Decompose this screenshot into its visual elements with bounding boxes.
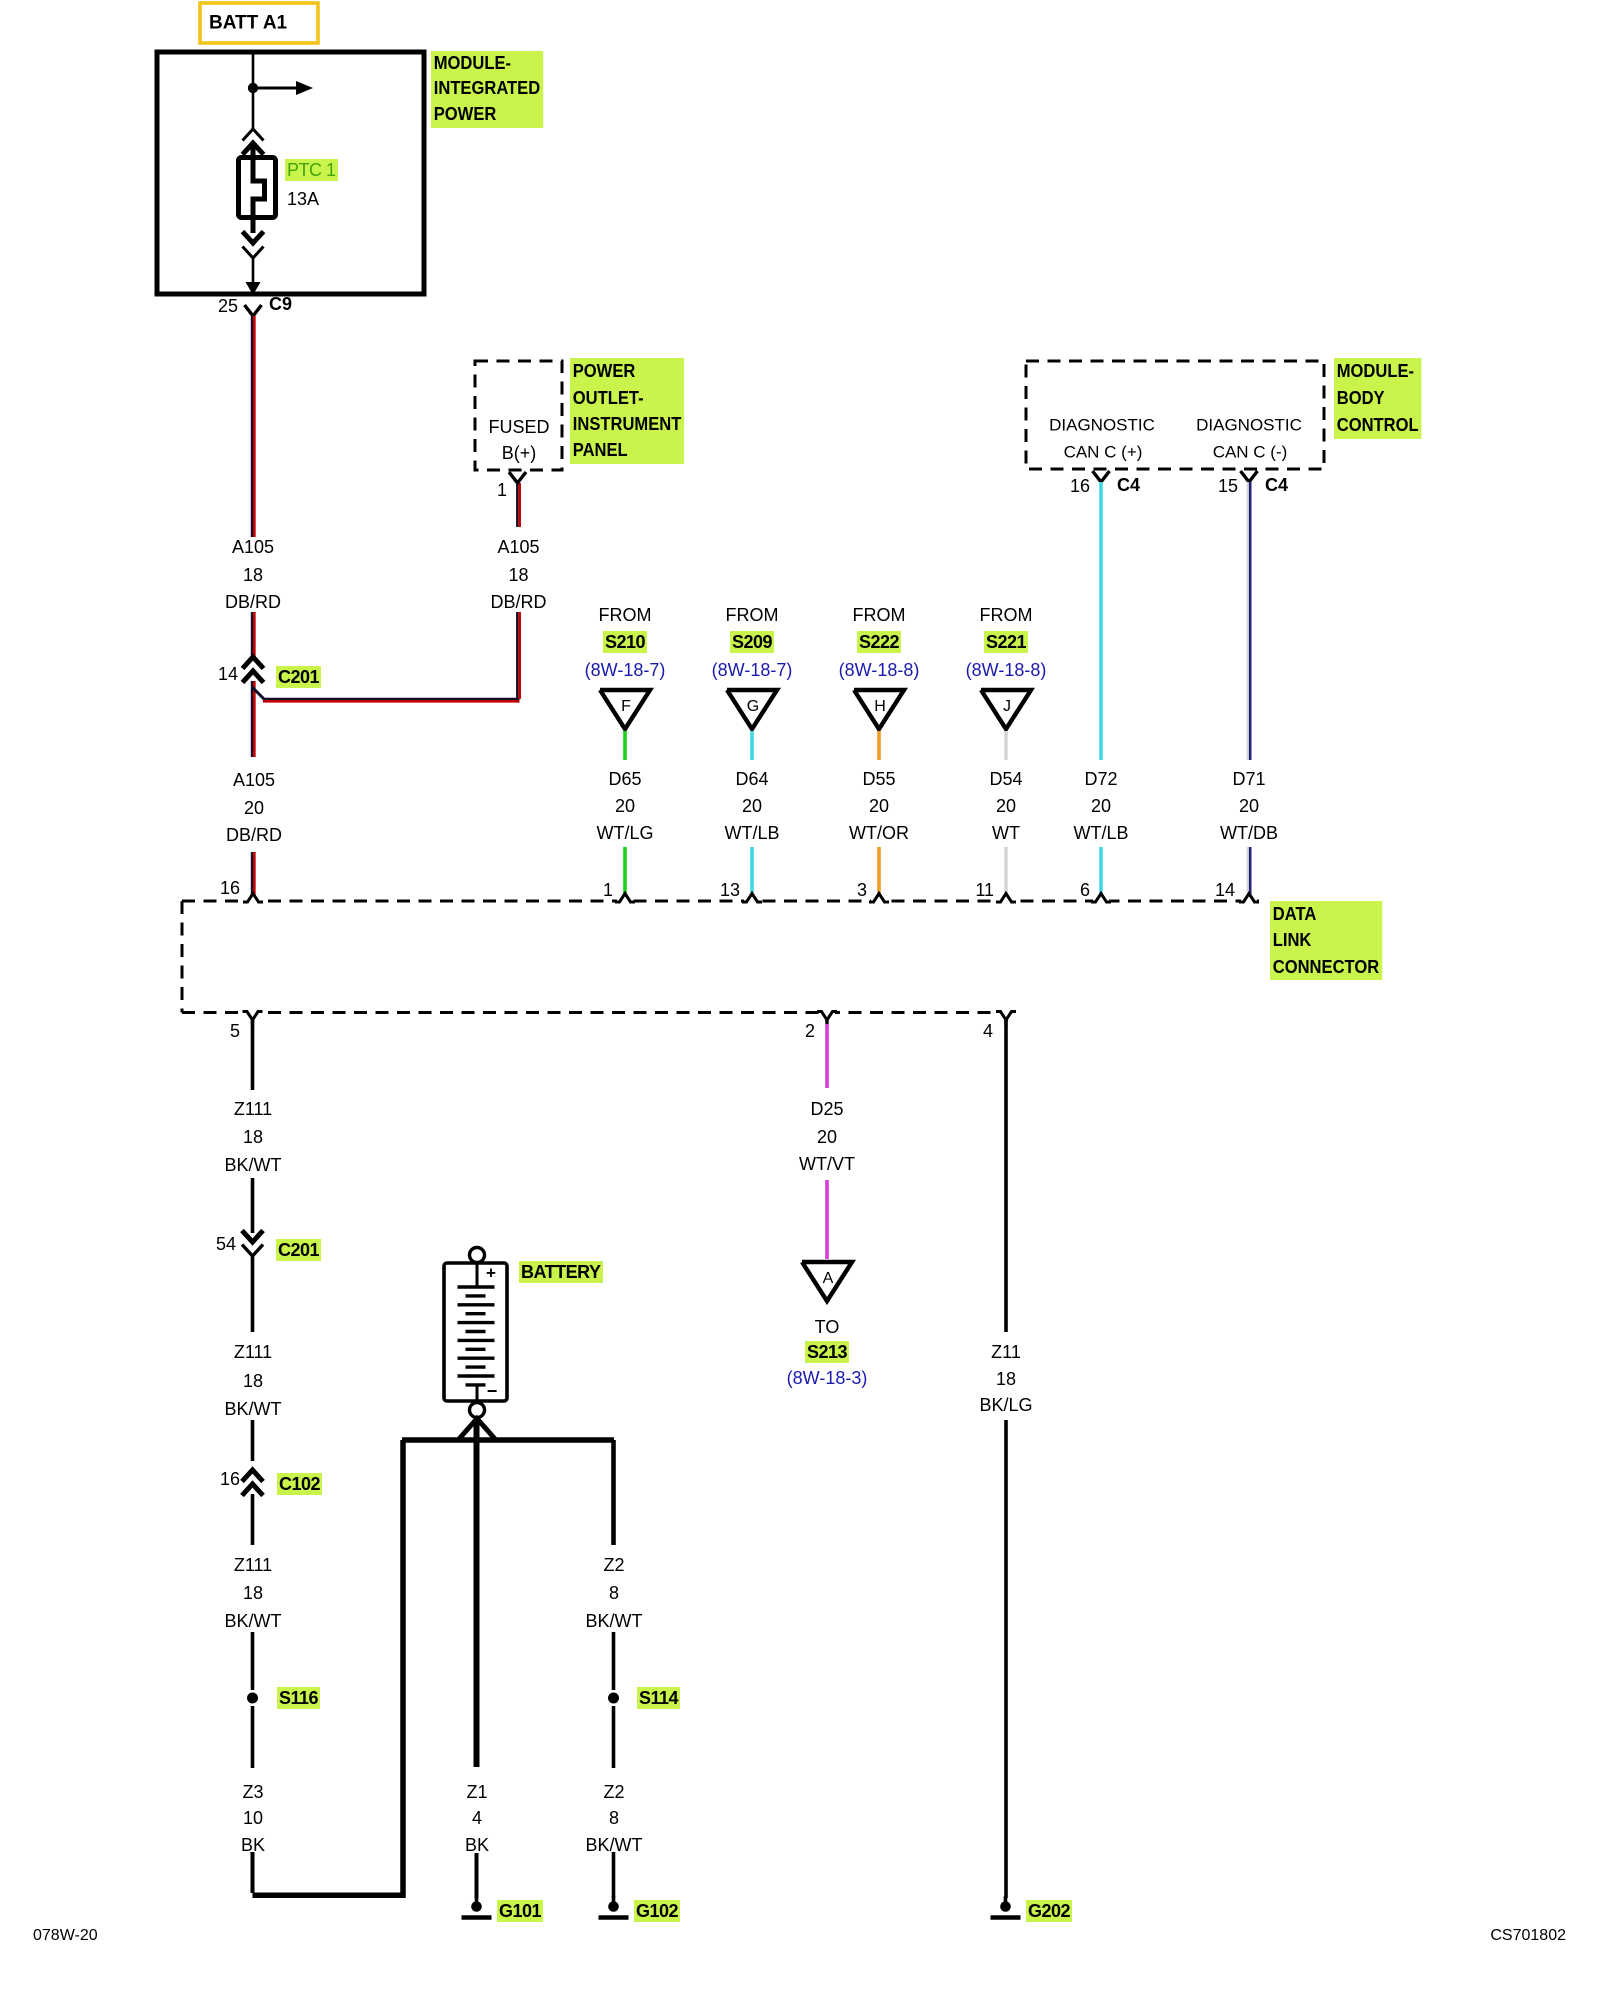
- DLC pin 2: [819, 1011, 835, 1015]
- label DLC pin 3: [857, 881, 867, 899]
- labels DLC pins 6 14: [1080, 881, 1090, 899]
- labels DIAGNOSTIC CAN C: [1049, 417, 1155, 434]
- labels wire Z11 18 BK/LG: [991, 1343, 1021, 1361]
- labels wire D72 20 WT/LB: [1084, 770, 1117, 788]
- ground G101: [475, 1896, 479, 1904]
- node junction dot: [248, 83, 258, 93]
- labels wire D71 20 WT/DB: [1232, 770, 1265, 788]
- label 13A: [287, 190, 319, 208]
- DLC pin 3: [871, 899, 887, 903]
- labels wire A105 18 DB/RD left: [232, 538, 274, 556]
- off-page connector A to S213: [802, 1262, 852, 1301]
- labels wire A105 18 DB/RD right: [497, 538, 539, 556]
- label PTC 1: [285, 161, 338, 179]
- wire into fuse: [251, 145, 256, 160]
- connector power outlet pin 1: [509, 472, 526, 483]
- label pin 1: [497, 481, 507, 499]
- label splice S114: [637, 1689, 680, 1707]
- wire Z111 18 BK/WT middle: [251, 1256, 255, 1332]
- labels wire D25 20 WT/VT: [810, 1100, 843, 1118]
- wire D25 20 WT/VT: [825, 1024, 829, 1088]
- label TO S213: [815, 1318, 840, 1336]
- DLC pin 5: [245, 1011, 261, 1015]
- labels wire Z111 upper: [234, 1100, 272, 1118]
- labels wire Z111 middle: [234, 1343, 272, 1361]
- battery polarity marks: [486, 1265, 496, 1282]
- connector C201 pin 14: [243, 657, 264, 669]
- splice S114: [608, 1693, 619, 1704]
- label BATTERY: [519, 1263, 603, 1281]
- wire below fuse: [251, 216, 256, 233]
- DLC pin 13: [744, 899, 760, 903]
- label pin 16 DLC: [220, 879, 240, 897]
- off-page connector H from S222: [854, 690, 904, 729]
- connector chevrons below PTC: [243, 232, 264, 244]
- wire D-circuit below triangle F: [623, 731, 627, 760]
- arrowhead at module edge: [246, 282, 261, 295]
- wire to module pin 25: [252, 258, 255, 283]
- wire Z2 8 BK/WT upper: [611, 1440, 616, 1545]
- wire D72 20 WT/LB: [1099, 482, 1103, 760]
- labels wire A105 20 DB/RD: [233, 771, 275, 789]
- label MODULE-BODY CONTROL: [1334, 358, 1421, 440]
- DLC pin 16: [245, 899, 261, 903]
- DLC pin 6: [1093, 899, 1109, 903]
- fuse label box BATT A1: [200, 3, 318, 43]
- wire Z3 10 BK: [251, 1706, 255, 1768]
- module BODY CONTROL dashed box: [1026, 361, 1324, 469]
- wire D-circuit below triangle H: [877, 731, 881, 760]
- label pin 25: [218, 297, 238, 315]
- labels FROM S209 column: [726, 606, 779, 624]
- off-page connector G from S209: [727, 690, 777, 729]
- labels wire Z2 upper: [603, 1556, 624, 1574]
- label DLC pin 1: [603, 881, 613, 899]
- label DLC pin 13: [720, 881, 740, 899]
- arrow internal feed: [253, 87, 297, 90]
- battery B1: [470, 1248, 485, 1263]
- wire Z111 18 BK/WT lower: [251, 1494, 255, 1545]
- label splice S116: [277, 1689, 320, 1707]
- wire A105 18 DB/RD right riser: [516, 612, 518, 699]
- wire Z2 8 BK/WT lower: [612, 1706, 616, 1768]
- labels DLC bottom pins 5 2 4: [230, 1022, 240, 1040]
- wire battery negative junction: [459, 1419, 495, 1440]
- wire A105 20 DB/RD below C201: [251, 681, 253, 757]
- fuse PTC 1 13A symbol: [239, 158, 276, 218]
- label C9: [269, 295, 292, 313]
- label MODULE-INTEGRATED POWER: [431, 51, 543, 128]
- wire A105 18 DB/RD left: [251, 316, 253, 537]
- label pin 54 C201: [216, 1235, 236, 1253]
- connector C102 pin 16: [242, 1470, 263, 1482]
- label POWER OUTLET-INSTRUMENT PANEL: [570, 358, 684, 463]
- wire D-circuit below triangle G: [750, 731, 754, 760]
- label pin 14: [218, 665, 238, 683]
- wire Z111 18 BK/WT upper: [251, 1020, 255, 1090]
- label pin 16 C102: [220, 1470, 240, 1488]
- wire branch C201 to power outlet: [252, 687, 265, 700]
- module POWER OUTLET-INSTRUMENT PANEL dashed box: [475, 361, 562, 470]
- wire Z1 4 BK: [474, 1418, 480, 1767]
- wire Z11 18 BK/LG: [1004, 1020, 1008, 1332]
- ground G102: [612, 1896, 616, 1904]
- connector C4 pin 16: [1093, 471, 1110, 482]
- footer sheet numbers: [33, 1928, 98, 1944]
- labels FROM S222 column: [853, 606, 906, 624]
- labels wire Z1 4 BK: [466, 1783, 487, 1801]
- label off-page connector A: [823, 1271, 834, 1287]
- labels C4 pins: [1070, 477, 1090, 495]
- labels wire Z3 10 BK: [242, 1783, 263, 1801]
- labels FROM S210 column: [599, 606, 652, 624]
- connector C4 pin 15: [1241, 471, 1258, 482]
- data link connector dashed outline: [182, 900, 1259, 903]
- labels wire Z2 lower: [603, 1783, 624, 1801]
- DLC pin 1: [617, 899, 633, 903]
- label DATA LINK CONNECTOR: [1270, 901, 1382, 981]
- ground G202: [1004, 1896, 1008, 1904]
- labels grounds: [497, 1902, 543, 1920]
- wire D-circuit below triangle J: [1004, 731, 1008, 760]
- module U1 MODULE-INTEGRATED POWER box: [157, 52, 424, 294]
- connector chevrons above PTC: [243, 129, 264, 141]
- DLC pin 14: [1241, 899, 1257, 903]
- splice S116: [247, 1693, 258, 1704]
- label C201: [276, 668, 321, 686]
- off-page connector F from S210: [600, 690, 650, 729]
- label DLC pin 11: [975, 881, 994, 899]
- DLC pin 4: [998, 1011, 1014, 1015]
- wire D71 20 WT/DB: [1247, 482, 1249, 760]
- label FUSED B(+): [488, 418, 549, 436]
- DLC pin 11: [998, 899, 1014, 903]
- wire battery feed inside module: [252, 54, 255, 131]
- label BATT A1: [209, 14, 287, 33]
- connector C201 pin 54: [242, 1231, 263, 1243]
- labels FROM S221 column: [980, 606, 1033, 624]
- wire Z3 routing to battery junction: [253, 1440, 404, 1895]
- off-page connector J from S221: [981, 690, 1031, 729]
- connector C9 pin 25: [245, 305, 262, 316]
- labels wire Z111 lower: [234, 1556, 272, 1574]
